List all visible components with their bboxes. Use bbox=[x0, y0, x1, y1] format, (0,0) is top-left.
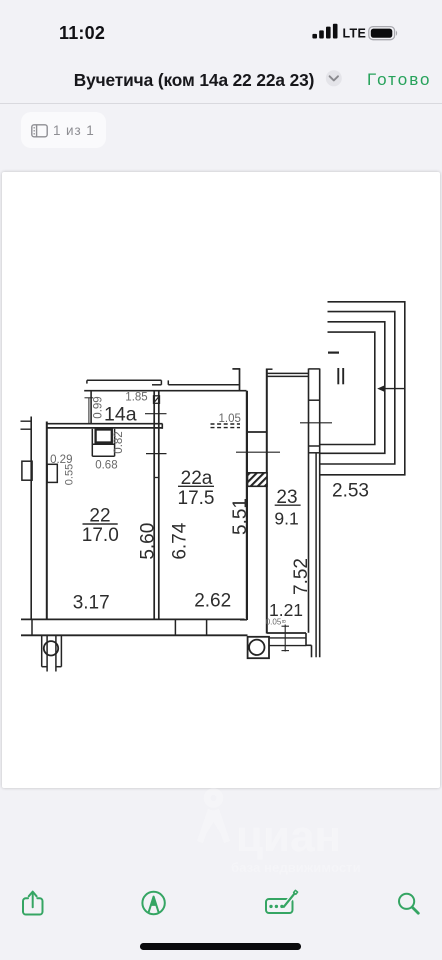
svg-text:14а: 14а bbox=[104, 404, 137, 426]
svg-text:2.53: 2.53 bbox=[332, 481, 369, 502]
svg-text:2.62: 2.62 bbox=[194, 591, 231, 612]
svg-text:0.55: 0.55 bbox=[64, 464, 76, 485]
svg-text:3.17: 3.17 bbox=[73, 593, 110, 614]
svg-text:5.60: 5.60 bbox=[138, 523, 159, 560]
svg-text:0.68: 0.68 bbox=[95, 459, 117, 471]
svg-text:9.1: 9.1 bbox=[274, 509, 298, 529]
svg-text:LTE: LTE bbox=[343, 27, 367, 41]
svg-text:0.82: 0.82 bbox=[113, 431, 125, 453]
svg-text:5.51: 5.51 bbox=[230, 498, 251, 535]
svg-text:в: в bbox=[281, 619, 288, 623]
svg-text:база недвижимости: база недвижимости bbox=[231, 860, 361, 875]
svg-text:17.0: 17.0 bbox=[82, 525, 119, 546]
svg-text:17.5: 17.5 bbox=[178, 488, 215, 509]
svg-text:0.99: 0.99 bbox=[93, 396, 105, 418]
svg-text:6.74: 6.74 bbox=[170, 522, 191, 559]
svg-text:0.05: 0.05 bbox=[266, 618, 282, 627]
svg-text:7.52: 7.52 bbox=[291, 558, 312, 595]
svg-text:1.05: 1.05 bbox=[219, 413, 241, 425]
svg-text:циан: циан bbox=[236, 812, 341, 861]
svg-text:1.85: 1.85 bbox=[125, 392, 147, 404]
